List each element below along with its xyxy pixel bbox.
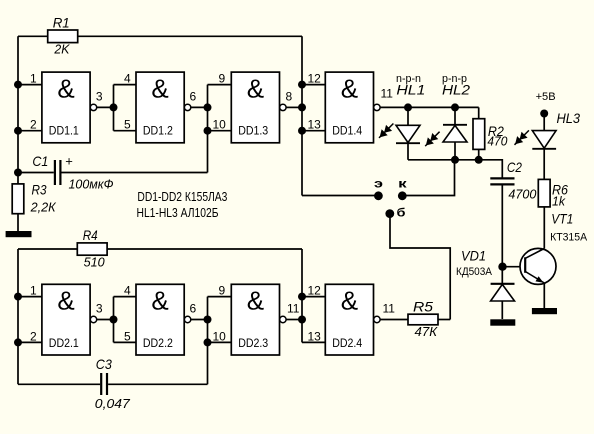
- svg-text:9: 9: [219, 284, 226, 298]
- svg-text:HL3: HL3: [557, 110, 581, 126]
- junction: HL2 cathode top: [451, 103, 459, 111]
- svg-text:3: 3: [96, 301, 103, 315]
- resistor R1: [48, 15, 78, 57]
- svg-text:510: 510: [84, 254, 106, 269]
- svg-text:100мкФ: 100мкФ: [69, 176, 114, 191]
- svg-text:&: &: [247, 73, 264, 103]
- svg-text:47К: 47К: [415, 324, 439, 339]
- svg-text:э: э: [374, 179, 383, 191]
- svg-text:9: 9: [219, 72, 226, 86]
- DD1.3 pin 10: [208, 118, 232, 132]
- svg-text:6: 6: [190, 301, 197, 315]
- svg-text:б: б: [397, 208, 406, 220]
- svg-text:&: &: [341, 286, 358, 316]
- junction: rail / pin 12 (DD2.4): [298, 293, 306, 301]
- LED HL2 (p-n-p): [425, 73, 470, 160]
- power terminal +5В: [536, 91, 556, 118]
- capacitor C1: [18, 153, 208, 191]
- wire: DD1.4 input rail, node 8 down to emitter terminal: [301, 36, 303, 195]
- wire: LED cathode bus to C2: [408, 160, 502, 179]
- svg-text:HL2: HL2: [442, 82, 470, 98]
- junction: rail / pin 13: [298, 127, 306, 135]
- svg-text:R4: R4: [83, 227, 98, 243]
- junction: rail / DD2.1 pin 1: [14, 293, 22, 301]
- svg-text:DD1.1: DD1.1: [49, 124, 79, 138]
- DD1.3 pin 9: [208, 72, 232, 86]
- transistor VT1: [520, 211, 588, 285]
- wire: DD2.4 input rail: [301, 249, 303, 342]
- wire: R4 rail: [18, 248, 302, 250]
- gate DD2.4: [325, 284, 373, 355]
- svg-text:&: &: [247, 286, 264, 316]
- wire: VT1 emitter to ground: [543, 283, 545, 308]
- DD2.3 pin 10: [208, 329, 232, 343]
- junction node between DD2.1 and DD2.2: [110, 297, 118, 343]
- DD2.2 pin 4: [114, 284, 137, 298]
- capacitor C3: [18, 356, 208, 411]
- svg-text:R3: R3: [32, 181, 47, 197]
- junction node between DD2.2 and DD2.3 with C3 riser: [204, 297, 212, 385]
- gate DD1.4: [325, 72, 373, 143]
- svg-text:DD2.1: DD2.1: [49, 336, 79, 350]
- svg-text:13: 13: [308, 329, 322, 343]
- junction node between DD1.1 and DD1.2: [110, 85, 118, 131]
- gate DD1.1: [42, 72, 90, 143]
- svg-text:1: 1: [30, 284, 37, 298]
- gate DD2.3: [231, 284, 279, 355]
- DD1.4 output pin 11: [374, 87, 479, 111]
- svg-text:VD1: VD1: [461, 248, 486, 264]
- svg-text:13: 13: [308, 118, 322, 132]
- DD2.4 output pin 11: [374, 301, 408, 322]
- wire: C2 to VD1/VT1 base node: [501, 184, 503, 266]
- resistor R4: [77, 227, 107, 269]
- junction: left rail / pin 1: [14, 81, 22, 89]
- svg-text:к: к: [398, 179, 407, 191]
- capacitor C2: [490, 159, 537, 202]
- node к (collector terminal): [398, 160, 455, 200]
- LED HL3: [515, 110, 581, 179]
- svg-text:&: &: [341, 73, 358, 103]
- gate DD1.3: [231, 72, 279, 143]
- DD1.1 pin 1: [18, 72, 42, 86]
- junction node between DD1.2 and DD1.3 with C1 riser: [204, 85, 212, 173]
- svg-text:11: 11: [381, 87, 394, 101]
- svg-text:10: 10: [213, 118, 227, 132]
- DD2.2 output pin 6: [184, 301, 207, 322]
- junction: rail / pin 8: [298, 103, 306, 111]
- svg-text:DD1-DD2 К155ЛА3: DD1-DD2 К155ЛА3: [137, 189, 227, 204]
- wire: bottom-left rail: [17, 249, 19, 384]
- resistor R2: [473, 107, 508, 159]
- svg-text:КД503А: КД503А: [456, 266, 493, 278]
- DD1.4 pin 12: [302, 72, 325, 86]
- junction: HL1 anode: [404, 103, 412, 111]
- junction: left rail / pin 2: [14, 127, 22, 135]
- DD1.2 output pin 6: [184, 89, 207, 110]
- svg-text:VT1: VT1: [551, 211, 573, 227]
- svg-text:11: 11: [287, 301, 300, 315]
- DD2.1 pin 1: [18, 284, 42, 298]
- LED HL1 (n-p-n): [379, 73, 425, 160]
- svg-text:DD1.4: DD1.4: [332, 124, 362, 138]
- DD2.4 pin 12: [302, 284, 325, 298]
- svg-text:2: 2: [30, 329, 37, 343]
- DD1.2 pin 5: [114, 118, 137, 132]
- svg-text:1: 1: [30, 72, 37, 86]
- DD1.3 output pin 8: [280, 89, 302, 110]
- gate DD1.2: [136, 72, 184, 143]
- node э (emitter terminal): [302, 179, 383, 201]
- gate DD2.2: [136, 284, 184, 355]
- DD1.4 pin 13: [302, 118, 325, 132]
- wire: base node to VT1: [502, 266, 524, 268]
- junction: bus / R2: [475, 156, 483, 164]
- svg-text:5: 5: [124, 118, 131, 132]
- wire: top rail (R1 row): [18, 35, 302, 37]
- svg-text:DD1.2: DD1.2: [143, 124, 173, 138]
- ground (VD1): [490, 319, 515, 325]
- svg-text:12: 12: [308, 72, 322, 86]
- svg-text:DD2.4: DD2.4: [332, 336, 362, 350]
- svg-text:C3: C3: [96, 356, 112, 372]
- gate DD2.1: [42, 284, 90, 355]
- svg-text:HL1-HL3 АЛ102Б: HL1-HL3 АЛ102Б: [137, 205, 219, 220]
- svg-text:&: &: [151, 73, 168, 103]
- diode VD1: [456, 248, 515, 320]
- svg-text:HL1: HL1: [396, 82, 425, 98]
- svg-text:11: 11: [383, 301, 396, 315]
- svg-text:4700: 4700: [508, 187, 537, 202]
- svg-text:&: &: [57, 286, 74, 316]
- svg-text:5: 5: [124, 329, 131, 343]
- junction: rail / pin 12: [298, 81, 306, 89]
- svg-text:3: 3: [96, 89, 103, 103]
- svg-text:4: 4: [124, 284, 131, 298]
- ground (VT1 emitter): [532, 308, 557, 314]
- ground (left rail): [6, 214, 32, 238]
- svg-text:1k: 1k: [552, 194, 566, 209]
- svg-text:&: &: [57, 73, 74, 103]
- DD2.2 pin 5: [114, 329, 137, 343]
- svg-text:6: 6: [190, 89, 197, 103]
- svg-text:470: 470: [487, 134, 508, 149]
- DD2.1 output pin 3: [90, 301, 113, 322]
- DD2.4 pin 13: [302, 329, 325, 343]
- DD1.2 pin 4: [114, 72, 137, 86]
- junction: left rail / C1: [14, 169, 22, 177]
- note: HL1-HL3 type: [137, 205, 219, 220]
- DD1.1 pin 2: [18, 118, 42, 132]
- svg-text:DD2.3: DD2.3: [238, 336, 268, 350]
- junction: rail / DD2.3 output: [298, 316, 306, 324]
- svg-text:0,047: 0,047: [95, 396, 131, 411]
- svg-text:КТ315А: КТ315А: [550, 232, 588, 244]
- resistor R5: [408, 299, 450, 340]
- resistor R6: [538, 179, 568, 208]
- svg-text:+: +: [65, 154, 73, 169]
- svg-text:12: 12: [308, 284, 322, 298]
- DD2.1 pin 2: [18, 329, 42, 343]
- junction: VD1 / VT1 base node: [498, 263, 506, 271]
- wire: R6 to VT1 collector: [543, 207, 545, 249]
- svg-text:2: 2: [30, 118, 37, 132]
- wire: left rail: [17, 36, 19, 184]
- node б (base terminal): [385, 208, 450, 320]
- svg-text:4: 4: [124, 72, 131, 86]
- svg-text:2K: 2K: [53, 42, 70, 57]
- svg-text:R5: R5: [413, 299, 433, 315]
- svg-text:8: 8: [286, 89, 293, 103]
- svg-text:DD2.2: DD2.2: [143, 336, 173, 350]
- svg-text:C1: C1: [32, 153, 48, 169]
- svg-text:2,2К: 2,2К: [30, 200, 57, 215]
- svg-text:10: 10: [213, 329, 227, 343]
- DD2.3 output pin 11: [280, 301, 302, 322]
- svg-text:C2: C2: [507, 159, 522, 175]
- svg-text:&: &: [151, 286, 168, 316]
- junction: bus / к riser: [451, 156, 459, 164]
- junction: rail / DD2.1 pin 2: [14, 338, 22, 346]
- DD2.3 pin 9: [208, 284, 232, 298]
- svg-text:R1: R1: [53, 15, 70, 31]
- svg-text:+5В: +5В: [536, 91, 556, 103]
- DD1.1 output pin 3: [90, 89, 113, 110]
- svg-text:DD1.3: DD1.3: [238, 124, 268, 138]
- resistor R3: [12, 181, 57, 214]
- note: DD1-DD2 type: [137, 189, 227, 204]
